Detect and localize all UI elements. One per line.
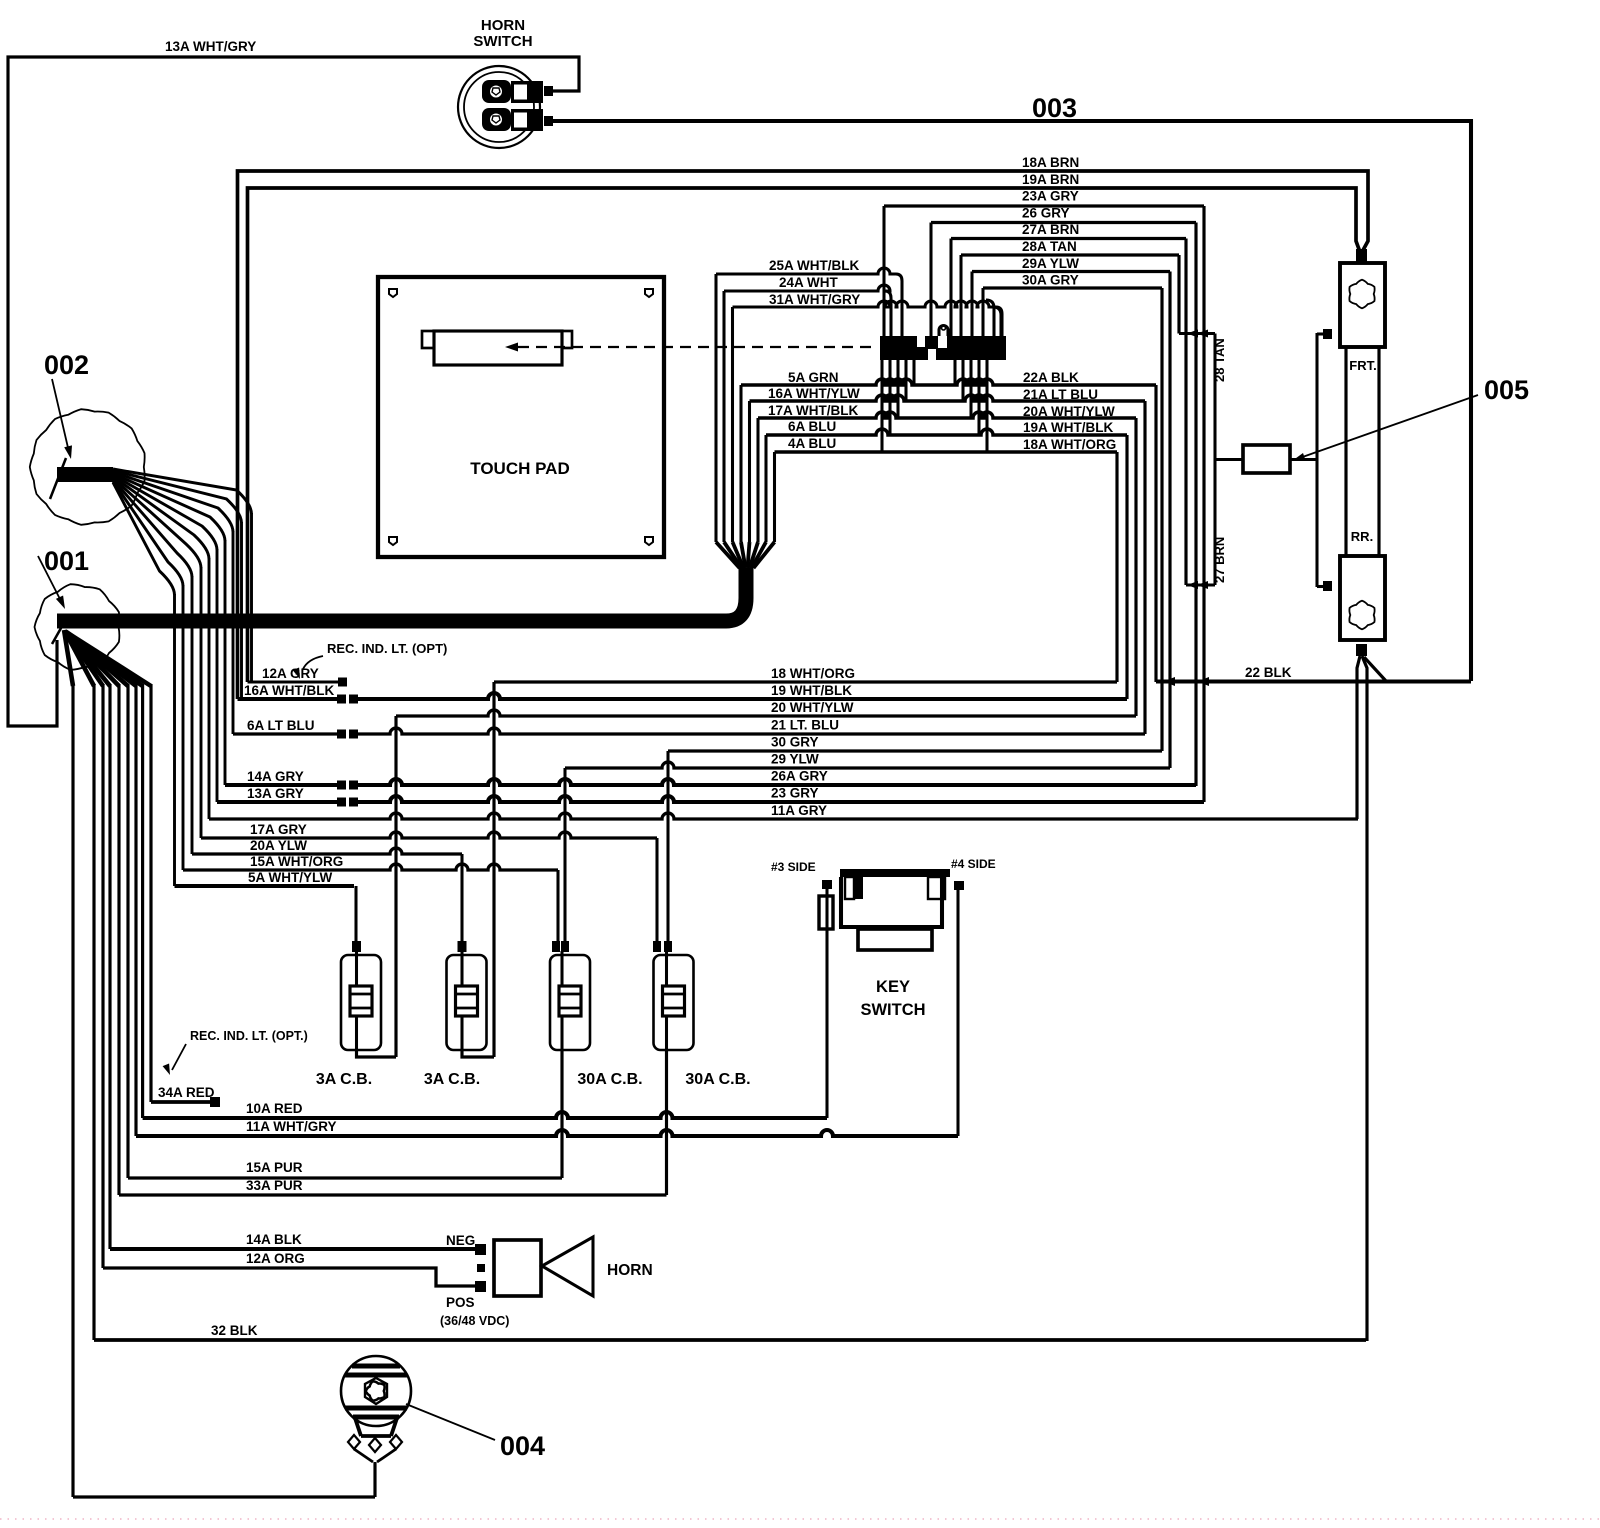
svg-text:11A WHT/GRY: 11A WHT/GRY	[246, 1119, 337, 1134]
svg-text:5A GRN: 5A GRN	[788, 370, 839, 385]
svg-text:REC. IND. LT. (OPT): REC. IND. LT. (OPT)	[327, 641, 447, 656]
svg-text:22 BLK: 22 BLK	[1245, 665, 1292, 680]
svg-text:12A GRY: 12A GRY	[262, 666, 319, 681]
svg-text:30A C.B.: 30A C.B.	[685, 1071, 750, 1088]
svg-text:4A BLU: 4A BLU	[788, 436, 836, 451]
svg-text:5A WHT/YLW: 5A WHT/YLW	[248, 870, 333, 885]
svg-text:#3 SIDE: #3 SIDE	[771, 860, 816, 874]
svg-text:26 GRY: 26 GRY	[1022, 205, 1070, 220]
svg-text:002: 002	[44, 350, 89, 380]
svg-text:14A GRY: 14A GRY	[247, 769, 304, 784]
svg-text:HORN: HORN	[481, 17, 525, 34]
svg-text:6A BLU: 6A BLU	[788, 419, 836, 434]
svg-text:KEY: KEY	[876, 978, 910, 996]
svg-text:23 GRY: 23 GRY	[771, 786, 819, 801]
svg-text:33A PUR: 33A PUR	[246, 1178, 303, 1193]
svg-text:27A BRN: 27A BRN	[1022, 222, 1079, 237]
svg-text:TOUCH PAD: TOUCH PAD	[470, 459, 570, 478]
svg-text:15A PUR: 15A PUR	[246, 1160, 303, 1175]
svg-text:30A C.B.: 30A C.B.	[577, 1071, 642, 1088]
svg-text:SWITCH: SWITCH	[860, 1001, 925, 1019]
svg-text:24A WHT: 24A WHT	[779, 275, 839, 290]
svg-text:10A RED: 10A RED	[246, 1101, 303, 1116]
svg-text:16A WHT/YLW: 16A WHT/YLW	[768, 386, 860, 401]
svg-text:17A GRY: 17A GRY	[250, 822, 307, 837]
svg-text:17A WHT/BLK: 17A WHT/BLK	[768, 403, 858, 418]
svg-text:31A WHT/GRY: 31A WHT/GRY	[769, 292, 860, 307]
svg-text:HORN: HORN	[607, 1262, 653, 1279]
svg-text:FRT.: FRT.	[1349, 358, 1376, 373]
svg-text:29 YLW: 29 YLW	[771, 752, 819, 767]
svg-text:12A ORG: 12A ORG	[246, 1251, 305, 1266]
svg-text:21 LT. BLU: 21 LT. BLU	[771, 717, 839, 732]
svg-text:20A YLW: 20A YLW	[250, 838, 307, 853]
svg-text:6A LT BLU: 6A LT BLU	[247, 718, 315, 733]
svg-text:003: 003	[1032, 93, 1077, 123]
svg-text:20 WHT/YLW: 20 WHT/YLW	[771, 700, 854, 715]
svg-text:28A TAN: 28A TAN	[1022, 239, 1077, 254]
svg-text:16A WHT/BLK: 16A WHT/BLK	[244, 683, 334, 698]
svg-text:18A BRN: 18A BRN	[1022, 155, 1079, 170]
svg-text:001: 001	[44, 546, 89, 576]
svg-text:29A YLW: 29A YLW	[1022, 256, 1079, 271]
svg-text:RR.: RR.	[1351, 529, 1373, 544]
svg-text:19 WHT/BLK: 19 WHT/BLK	[771, 683, 852, 698]
svg-text:34A RED: 34A RED	[158, 1085, 215, 1100]
svg-text:22A BLK: 22A BLK	[1023, 370, 1079, 385]
svg-text:15A WHT/ORG: 15A WHT/ORG	[250, 854, 343, 869]
svg-text:13A GRY: 13A GRY	[247, 786, 304, 801]
svg-text:30 GRY: 30 GRY	[771, 734, 819, 749]
svg-text:005: 005	[1484, 375, 1529, 405]
svg-text:REC. IND. LT. (OPT.): REC. IND. LT. (OPT.)	[190, 1029, 308, 1043]
svg-text:POS: POS	[446, 1295, 475, 1310]
svg-text:3A C.B.: 3A C.B.	[316, 1071, 372, 1088]
svg-text:26A GRY: 26A GRY	[771, 769, 828, 784]
svg-text:23A GRY: 23A GRY	[1022, 189, 1079, 204]
svg-text:NEG: NEG	[446, 1233, 475, 1248]
svg-text:13A WHT/GRY: 13A WHT/GRY	[165, 39, 256, 54]
svg-text:19A WHT/BLK: 19A WHT/BLK	[1023, 420, 1113, 435]
svg-text:#4 SIDE: #4 SIDE	[951, 857, 996, 871]
svg-text:32 BLK: 32 BLK	[211, 1323, 258, 1338]
svg-text:27 BRN: 27 BRN	[1212, 537, 1227, 583]
svg-text:3A C.B.: 3A C.B.	[424, 1071, 480, 1088]
svg-text:28 TAN: 28 TAN	[1212, 338, 1227, 382]
svg-text:18 WHT/ORG: 18 WHT/ORG	[771, 666, 855, 681]
svg-text:004: 004	[500, 1431, 545, 1461]
svg-text:30A GRY: 30A GRY	[1022, 273, 1079, 288]
svg-text:(36/48 VDC): (36/48 VDC)	[440, 1314, 509, 1328]
svg-text:25A WHT/BLK: 25A WHT/BLK	[769, 258, 859, 273]
svg-text:SWITCH: SWITCH	[473, 33, 532, 50]
svg-text:18A WHT/ORG: 18A WHT/ORG	[1023, 437, 1116, 452]
svg-text:14A BLK: 14A BLK	[246, 1232, 302, 1247]
svg-text:11A GRY: 11A GRY	[771, 803, 827, 818]
svg-text:19A BRN: 19A BRN	[1022, 172, 1079, 187]
